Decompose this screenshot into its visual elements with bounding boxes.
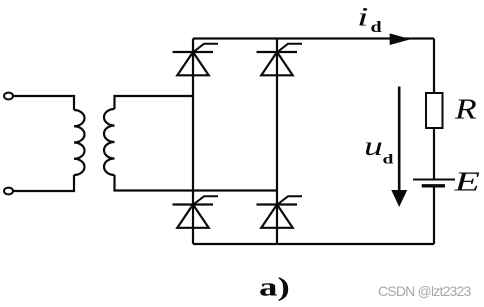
svg-text:a): a) <box>259 273 290 301</box>
terminal primary bottom <box>4 188 13 195</box>
wire load bottom <box>433 188 435 245</box>
resistor R <box>426 93 443 128</box>
svg-text:i: i <box>357 2 369 31</box>
svg-text:u: u <box>364 132 383 162</box>
wire R to E <box>433 128 435 180</box>
terminal primary top <box>4 93 13 100</box>
thyristor VT3 (bottom left) <box>173 196 219 228</box>
wire left bridge leg <box>192 39 194 245</box>
transformer primary winding <box>74 110 85 175</box>
wire secondary top to bridge node a <box>115 96 194 109</box>
svg-text:d: d <box>383 151 395 167</box>
transformer secondary winding <box>104 109 115 175</box>
wire primary bottom <box>14 175 75 191</box>
svg-text:d: d <box>371 18 382 36</box>
svg-text:E: E <box>453 167 480 197</box>
wire primary top <box>14 96 75 110</box>
wire bottom rail <box>193 243 434 245</box>
thyristor VT1 (top left) <box>173 44 219 76</box>
wire load top <box>433 39 435 94</box>
svg-text:CSDN @lzt2323: CSDN @lzt2323 <box>378 283 472 299</box>
wire secondary bottom to bridge node b <box>115 175 278 191</box>
thyristor VT4 (bottom right) <box>257 196 303 228</box>
voltage arrow u_d <box>391 87 407 208</box>
wire right bridge leg <box>276 39 278 245</box>
svg-text:R: R <box>454 93 477 124</box>
wire top rail <box>193 37 434 39</box>
current arrow i_d <box>390 33 411 45</box>
thyristor VT2 (top right) <box>257 44 303 76</box>
battery E plates <box>413 180 455 186</box>
